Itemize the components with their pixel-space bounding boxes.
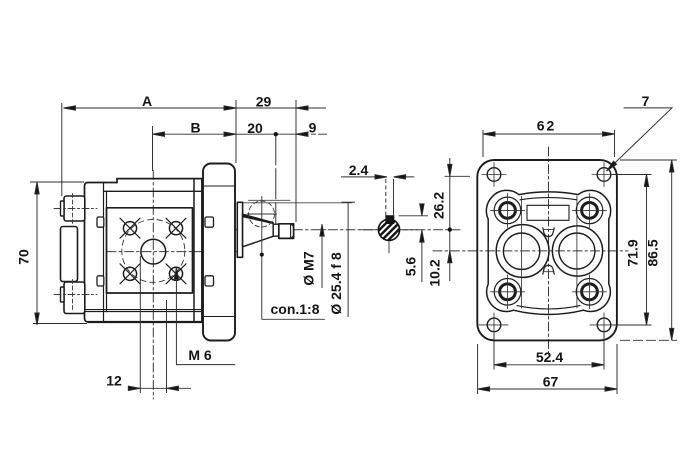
svg-text:9: 9: [309, 120, 317, 136]
side view: rear cover / housing interface: [104, 183, 107, 321]
svg-text:62: 62: [537, 118, 557, 134]
svg-text:12: 12: [106, 373, 122, 389]
front view: waist notch bottom: [543, 265, 554, 274]
side view: bottom port centerline: [54, 294, 97, 296]
key nub cross-section: [386, 216, 394, 224]
dimension 20: end dot: [236, 133, 296, 135]
front view: cover screw boss bottom-right: [573, 275, 607, 309]
dimension 86.5: line, extensions, arrows: [671, 160, 673, 340]
dimension 70: line, extensions and arrows: [36, 182, 38, 325]
svg-text:7: 7: [642, 93, 650, 109]
front view: mounting hole bottom-right: [590, 313, 618, 337]
dimension 2.4: line, outside arrows, slot extensions: [341, 176, 414, 178]
svg-text:10.2: 10.2: [427, 259, 443, 286]
svg-text:52.4: 52.4: [536, 349, 563, 365]
side view: shaft axis centerline: [206, 229, 462, 231]
front view: mounting hole top-left: [482, 163, 506, 187]
front view: right gear boss: [552, 226, 602, 276]
side view: threaded shaft end M7: [279, 224, 294, 239]
svg-text:5.6: 5.6: [403, 257, 419, 277]
side view: shaft neck: [273, 224, 279, 236]
dimension 67: line, extensions, arrows: [478, 388, 617, 390]
side view: body horizontal centerline: [107, 251, 240, 253]
dimension B: line and extension: [153, 133, 237, 135]
front view: waist tick top: [543, 228, 554, 230]
front view: bore centerline right: [576, 196, 578, 308]
svg-text:67: 67: [543, 374, 559, 390]
svg-text:Ø M7: Ø M7: [301, 251, 317, 285]
dimension 5.6: outside arrows and extension: [399, 215, 429, 217]
side view: top port lip: [61, 201, 65, 216]
pilot diameter extension line: [243, 202, 352, 204]
svg-text:B: B: [190, 120, 200, 136]
side view: rear bearing boss circle: [141, 239, 166, 264]
side view: middle suction boss: [61, 227, 78, 282]
svg-text:29: 29: [256, 94, 272, 110]
svg-text:M 6: M 6: [188, 347, 212, 363]
side view: mounting flange plate: [203, 164, 235, 341]
side view: bolt pitch circle: [122, 219, 185, 282]
dimension 52.4: line, extensions, arrows: [494, 364, 604, 366]
front view: left gear boss: [496, 225, 549, 278]
svg-text:26.2: 26.2: [431, 192, 447, 219]
svg-text:86.5: 86.5: [645, 239, 661, 266]
svg-text:71.9: 71.9: [625, 239, 641, 266]
key top tangent line: [249, 199, 291, 201]
side view: top port centerline: [54, 208, 97, 210]
front view: bottom arch inner line: [517, 306, 580, 309]
front view: main horizontal centerline: [433, 250, 628, 252]
dimension 12: line, extensions, outside arrows: [128, 387, 191, 389]
side view: shaft key wedge: [243, 214, 273, 224]
front view: cover screw boss bottom-left: [491, 275, 525, 309]
leader line to con.1:8 with node dot: [262, 197, 325, 320]
side view: bolt screw M6 bottom-right: [166, 264, 186, 284]
side view: bolt screw M6 top-right: [166, 218, 186, 238]
side view: through-bolt tab front bottom: [205, 276, 214, 286]
side view: bolt screw M6 bottom-left: [120, 264, 140, 284]
leader M6: arrow, line, underline: [176, 268, 235, 365]
side view: body vertical centerline: [152, 171, 154, 400]
leader 7: underline, diagonal, arrow: [607, 108, 673, 171]
front view: top arch inner line: [520, 198, 577, 200]
front view: body clover outline: [486, 190, 610, 314]
side view: tapered shaft: [243, 214, 274, 247]
side view: bottom port lip: [61, 287, 65, 302]
front view: mounting hole bottom-left: [479, 313, 508, 337]
front view: cover screw boss top-right: [573, 193, 607, 227]
side view: key section indicator circle: [249, 201, 275, 227]
svg-text:Ø 25.4 f 8: Ø 25.4 f 8: [328, 252, 344, 314]
side view: port hidden line top: [72, 194, 74, 224]
side view: through-bolt tab front top: [205, 217, 214, 227]
side view: rear cover outline: [85, 183, 118, 323]
front view: main vertical centerline: [548, 147, 550, 357]
side view: bottom port boss: [64, 282, 85, 314]
dimension 26.2 and 10.2: shared vertical line, tick, dot, arrows: [449, 158, 451, 281]
side view: top port boss: [64, 196, 85, 221]
key detail horizontal centerline: [361, 229, 418, 231]
front view: bore centerline left: [521, 196, 523, 308]
front view: nameplate rectangle: [527, 205, 569, 220]
dimension 9: line with outside arrow: [296, 133, 327, 135]
dimension 71.9: line, extensions, arrows: [646, 175, 648, 326]
key cross-section detail: hatched circle: [370, 211, 408, 249]
side view: housing face square: [107, 208, 193, 293]
side view: front cover interface: [194, 179, 202, 322]
side view: through-bolt tab rear top: [97, 217, 104, 227]
front view: flange plate outline: [477, 160, 617, 340]
side view: bottom double line: [85, 310, 202, 312]
front view: waist notch top: [543, 228, 554, 237]
front view: cover screw boss top-left: [491, 193, 525, 227]
svg-text:A: A: [142, 93, 152, 109]
front view: waist tick bottom: [543, 271, 554, 273]
side view: key section circle centerline: [247, 213, 277, 215]
side view: port hidden line bottom: [72, 280, 74, 311]
dimension 62: line, extensions, arrows: [483, 133, 615, 135]
svg-text:20: 20: [247, 120, 263, 136]
front view: left gear bore: [503, 233, 539, 269]
dimension \u00d8 M7: vertical line and up arrow: [321, 224, 323, 288]
dimension A: line and extensions: [64, 107, 237, 109]
side view: through-bolt tab rear bottom: [97, 276, 104, 286]
side view: housing top edge: [117, 179, 202, 183]
dimension \u00d8 25.4 f8: vertical line with end tick: [347, 202, 349, 317]
svg-text:2.4: 2.4: [349, 162, 369, 178]
svg-text:70: 70: [16, 249, 32, 265]
key detail vertical centerline below: [388, 242, 390, 254]
side view: shaft collar pilot: [237, 202, 242, 257]
front view: right gear bore: [559, 233, 595, 269]
side view: flange face lines: [203, 186, 235, 317]
side view: bolt screw M6 top-left: [120, 218, 140, 238]
dimension 29: line: [236, 107, 326, 109]
side view: cover step line: [104, 190, 202, 192]
front view: mounting hole top-right: [592, 163, 616, 187]
side view: body bottom edge: [89, 321, 202, 323]
svg-text:con.1:8: con.1:8: [270, 301, 319, 317]
